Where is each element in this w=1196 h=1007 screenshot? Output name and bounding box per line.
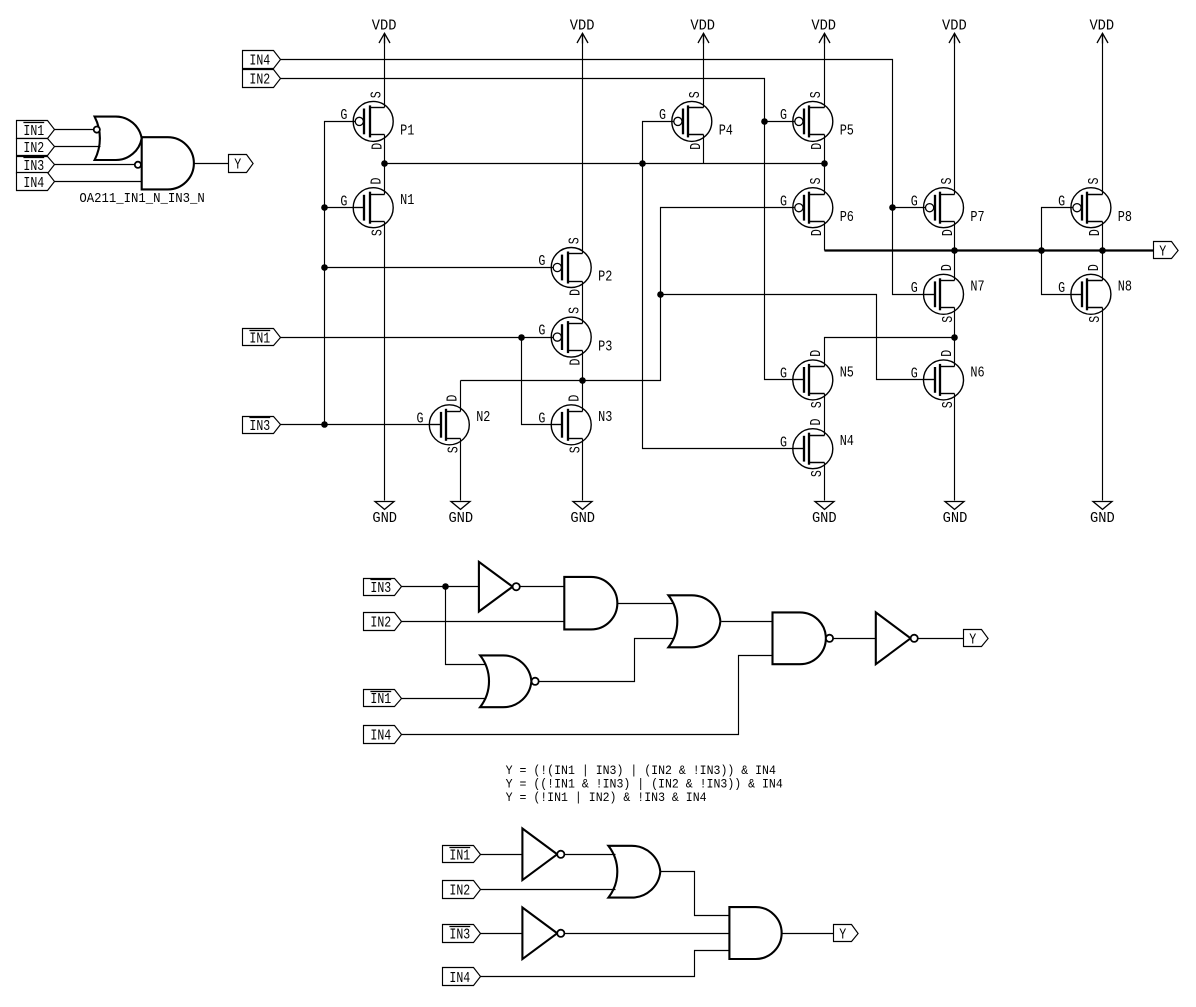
transistor N4 (NMOS) [780,418,854,477]
svg-text:D: D [371,143,387,150]
svg-text:G: G [1058,194,1065,210]
svg-text:G: G [1058,281,1065,297]
svg-text:N5: N5 [840,365,854,381]
inverted input bubble IN1 [94,127,100,133]
wire IN1 to OR input bubble [55,129,94,131]
svg-text:P6: P6 [840,210,854,226]
wire inverter out to OR [565,854,616,856]
svg-text:D: D [1088,229,1104,236]
power symbol VDD (x=385) [372,19,397,44]
input port IN3 (inverted) [17,157,55,176]
input port IN1 (inverted) [17,121,55,140]
wire IN3 to N1 gate [325,207,365,209]
svg-text:N4: N4 [840,434,854,450]
svg-text:G: G [538,411,545,427]
svg-text:G: G [659,108,666,124]
svg-text:VDD: VDD [1089,19,1114,35]
wire IN2 to P5 gate [765,121,795,123]
wire N6 drain pin [954,338,956,367]
transistor N3 (NMOS) [538,394,612,453]
svg-text:S: S [568,307,584,314]
wire P1 drain / N1 drain [384,135,386,195]
svg-text:Y: Y [969,633,976,649]
svg-text:IN4: IN4 [249,53,270,69]
input port IN4 [443,968,481,987]
svg-text:P8: P8 [1118,210,1132,226]
wire N4 source to GND [824,463,826,501]
input port IN3 (inverted) [364,579,402,597]
svg-text:G: G [911,367,918,383]
wire N2 drain [460,381,462,412]
wire IN2 to OR [481,889,616,891]
power symbol VDD (x=703) [690,19,715,44]
wire N5 drain to N7 source [825,338,955,367]
svg-text:D: D [941,229,957,236]
svg-text:P7: P7 [970,210,984,226]
and gate [564,577,617,630]
svg-text:G: G [911,281,918,297]
wire IN4 to NAND [402,656,773,735]
wire VDD rail to P2 source [582,34,584,254]
svg-text:D: D [809,418,825,425]
input port IN1 (inverted) [443,846,481,865]
svg-text:S: S [568,237,584,244]
wire P4 drain [703,135,705,164]
wire N1 source to GND [384,222,386,501]
input port IN2 [17,139,55,158]
svg-text:D: D [446,394,462,401]
svg-text:IN4: IN4 [449,971,470,987]
svg-text:D: D [689,143,705,150]
transistor P4 (PMOS) [659,91,733,150]
wire IN4 net [281,60,926,208]
svg-text:D: D [810,143,826,150]
transistor P6 (PMOS) [780,177,854,236]
svg-text:D: D [940,264,956,271]
wire VDD rail to P4 source [703,34,705,108]
power symbol VDD (x=955) [942,19,967,44]
wire IN1 to N3 gate [522,338,563,425]
or gate [668,595,720,647]
svg-text:IN2: IN2 [370,616,391,632]
input port IN2 [364,613,402,632]
wire P8/N8 gate net [1042,208,1074,251]
transistor P2 (PMOS) [538,237,612,296]
power symbol VDD (x=824) [811,19,836,44]
wire AND out to Y [782,933,834,935]
transistor N8 (NMOS) [1058,264,1132,323]
input port IN4 [243,51,281,70]
wire IN3 to inverter [402,586,479,588]
svg-text:G: G [780,435,787,451]
wire N7 source pin [954,308,956,338]
input port IN1 (inverted) [364,690,402,709]
svg-text:N6: N6 [970,365,984,381]
svg-text:Y = (!IN1 | IN2) & !IN3 & IN4: Y = (!IN1 | IN2) & !IN3 & IN4 [506,790,707,805]
output port Y [964,630,989,649]
svg-text:Y: Y [234,158,241,174]
transistor N6 (NMOS) [911,350,985,409]
svg-text:GND: GND [943,511,968,527]
svg-text:GND: GND [1090,511,1115,527]
inverter (IN1) [522,829,564,881]
wire IN1 to NOR [402,698,487,700]
transistor N5 (NMOS) [780,350,854,409]
svg-text:IN1: IN1 [249,331,270,347]
wire NAND out to inverter [834,638,876,640]
svg-text:S: S [810,401,826,408]
wire IN4 to AND input [55,181,142,183]
svg-text:VDD: VDD [372,19,397,35]
svg-text:D: D [370,177,386,184]
junction [951,247,958,254]
svg-text:D: D [569,289,585,296]
svg-text:N2: N2 [476,410,490,426]
wire P2 drain / P3 source [582,282,584,324]
wire IN2 to OR input [55,146,101,148]
junction [321,421,328,428]
wire to P4 gate [643,122,675,164]
svg-text:D: D [1087,264,1103,271]
svg-text:N8: N8 [1118,280,1132,296]
junction [1038,247,1045,254]
wire P8 drain / N8 drain [1102,222,1104,281]
junction [1099,247,1106,254]
svg-text:S: S [371,229,387,236]
input port IN2 [243,70,281,89]
junction [639,160,646,167]
inverter (IN3) [522,908,564,960]
wire stage1 output net horizontal [385,163,825,165]
svg-text:N7: N7 [970,280,984,296]
wire AND output to Y [194,163,229,165]
inverter (output) [876,612,918,664]
wire IN2 net [281,79,805,380]
wire P7 drain / N7 drain [954,222,956,281]
wire inverter out to Y [918,638,964,640]
svg-text:S: S [940,177,956,184]
wire IN3 to AND input bubble [55,164,135,166]
junction [951,334,958,341]
ground symbol GND (x=1102) [1090,502,1115,528]
wire IN1 to inverter [481,854,523,856]
wire IN3 branch to NOR input [446,587,487,665]
svg-text:G: G [538,254,545,270]
transistor P5 (PMOS) [780,91,854,150]
nor gate (OR body) [480,655,531,707]
transistor N7 (NMOS) [911,264,985,323]
svg-text:S: S [688,91,704,98]
svg-text:N1: N1 [400,193,414,209]
svg-text:G: G [780,194,787,210]
wire VDD rail to P8 source [1102,34,1104,195]
transistor N1 (NMOS) [340,177,414,236]
wire P5 drain / P6 source [824,135,826,195]
wire VDD rail to P7 source [954,34,956,195]
ground symbol GND (x=385) [372,502,397,528]
junction [518,334,525,341]
svg-text:G: G [417,411,424,427]
wire to N8 gate [1042,251,1083,295]
svg-text:D: D [810,229,826,236]
wire OR out to NAND [722,621,773,623]
junction [381,160,388,167]
svg-text:D: D [568,394,584,401]
or gate [608,846,660,898]
svg-text:P5: P5 [840,124,854,140]
svg-text:S: S [941,316,957,323]
input port IN3 (inverted) [443,925,481,944]
svg-text:IN3: IN3 [370,581,391,597]
svg-text:G: G [911,194,918,210]
svg-text:D: D [940,350,956,357]
svg-text:IN2: IN2 [249,72,270,88]
svg-text:IN2: IN2 [23,141,44,157]
wire NOR out to OR input [539,639,675,682]
output port Y [834,925,859,944]
svg-text:OA211_IN1_N_IN3_N: OA211_IN1_N_IN3_N [79,192,204,207]
input port IN4 [17,173,55,192]
wire IN3 to inverter [481,933,523,935]
output port Y [229,155,254,174]
wire N5 source / N4 drain [824,394,826,436]
svg-text:S: S [809,91,825,98]
svg-text:VDD: VDD [570,19,595,35]
wire OR out to AND [661,872,730,916]
wire N3 drain [582,381,584,412]
transistor P8 (PMOS) [1058,177,1132,236]
wire IN4 to N7 gate [893,208,935,295]
and gate (OA211 AND) [142,137,194,189]
svg-text:P4: P4 [719,124,733,140]
svg-text:G: G [780,108,787,124]
input port IN3 (inverted) [243,417,281,436]
wire N3 source to GND [582,439,584,501]
svg-text:S: S [569,446,585,453]
junction [321,204,328,211]
nor output bubble [532,678,539,685]
junction [889,204,896,211]
input port IN2 [443,881,481,900]
svg-text:P2: P2 [598,270,612,286]
junction [821,160,828,167]
ground symbol GND (x=955) [943,502,968,528]
wire N6 source to GND [954,394,956,501]
svg-text:IN1: IN1 [23,124,44,140]
inverter (IN3) [479,562,520,612]
svg-text:S: S [447,446,463,453]
input port IN1 (inverted) [243,329,281,348]
svg-text:P3: P3 [598,339,612,355]
transistor P7 (PMOS) [911,177,985,236]
power symbol VDD (x=1102) [1089,19,1114,44]
input port IN4 [364,726,402,745]
wire to N4 gate [643,164,805,449]
power symbol VDD (x=583) [570,19,595,44]
svg-text:D: D [809,350,825,357]
svg-text:IN3: IN3 [449,928,470,944]
junction [657,291,664,298]
svg-text:P1: P1 [400,124,414,140]
wire IN3 vertical branch [325,122,356,425]
nand gate (AND body) [773,612,826,664]
wire IN3 to P2 gate [325,267,554,269]
svg-text:S: S [1088,316,1104,323]
svg-text:VDD: VDD [690,19,715,35]
junction [442,583,449,590]
svg-text:IN4: IN4 [370,729,391,745]
wire inverter out to AND [520,586,565,588]
svg-text:IN2: IN2 [449,884,470,900]
svg-text:IN1: IN1 [370,692,391,708]
or gate (OA211 input OR) [95,117,142,160]
svg-text:Y: Y [1159,245,1166,261]
svg-text:GND: GND [372,511,397,527]
svg-text:Y: Y [839,928,846,944]
svg-text:IN3: IN3 [249,419,270,435]
nand output bubble [826,635,833,642]
svg-text:IN1: IN1 [449,849,470,865]
svg-text:D: D [569,358,585,365]
svg-text:GND: GND [448,511,473,527]
svg-text:GND: GND [570,511,595,527]
wire output net Y (thick) [825,249,1154,251]
svg-text:G: G [780,367,787,383]
svg-text:S: S [370,91,386,98]
transistor N2 (NMOS) [417,394,491,453]
and gate (3-input) [729,907,781,959]
junction [579,377,586,384]
junction [761,118,768,125]
inverted input bubble IN3 [135,162,141,168]
wire IN1 net to P3 gate [281,337,554,339]
wire IN2 to AND [402,621,565,623]
wire N2 source to GND [460,439,462,501]
svg-text:G: G [538,324,545,340]
svg-text:GND: GND [812,511,837,527]
wire inverter out to AND [565,933,730,935]
svg-text:S: S [941,401,957,408]
wire stage2 output net [461,208,795,381]
wire IN4 to AND [481,951,730,977]
svg-text:S: S [1087,177,1103,184]
wire P6 drain down to output net [824,222,826,251]
ground symbol GND (x=461) [448,502,473,528]
wire N8 source to GND [1102,308,1104,501]
wire P3 drain [582,351,584,381]
wire VDD rail to P1 source [384,34,386,108]
svg-text:S: S [809,177,825,184]
output port Y [1154,242,1179,261]
svg-text:IN4: IN4 [23,176,44,192]
ground symbol GND (x=583) [570,502,595,528]
svg-text:G: G [340,108,347,124]
svg-text:G: G [340,194,347,210]
junction [321,264,328,271]
ground symbol GND (x=824) [812,502,837,528]
wire VDD rail to P5 source [824,34,826,108]
transistor P1 (PMOS) [340,91,414,150]
wire AND out to OR [618,603,675,605]
svg-text:VDD: VDD [811,19,836,35]
wire IN3 net to N2 gate [281,424,441,426]
wire stage2 net to N6 gate [661,295,935,380]
transistor P3 (PMOS) [538,307,612,366]
svg-text:N3: N3 [598,410,612,426]
svg-text:S: S [810,470,826,477]
